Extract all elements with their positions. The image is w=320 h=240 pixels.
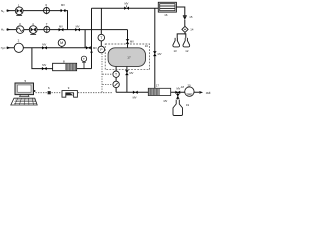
wire top line — [92, 7, 159, 9]
svg-text:20: 20 — [188, 84, 192, 88]
wire tank bottom port1 through T2 P2 to pipe — [115, 66, 117, 92]
compressor circle 1 — [15, 3, 23, 15]
svg-text:14: 14 — [190, 28, 194, 32]
signal dashed computer to interface to stage — [36, 92, 48, 94]
valve V1 row1 — [61, 3, 66, 12]
svg-text:MV: MV — [130, 40, 134, 44]
camera stage 9 — [62, 86, 77, 97]
arrow outlet — [199, 91, 203, 94]
arrow inlet row1 — [7, 9, 11, 12]
svg-text:15: 15 — [189, 15, 193, 19]
svg-text:MV: MV — [59, 25, 63, 29]
svg-text:MV: MV — [42, 43, 46, 47]
wire row1 main — [7, 10, 62, 12]
svg-text:N2: N2 — [1, 9, 5, 14]
arrow up on trunk — [90, 50, 93, 53]
wire piston outlet to trunk — [77, 68, 92, 70]
valve V2 row2 — [59, 25, 64, 32]
valve V13 junction drop — [176, 94, 180, 99]
piston cylinder 8 — [53, 59, 77, 70]
svg-text:MV: MV — [76, 25, 80, 29]
gauge T1 — [98, 34, 105, 41]
arrow inlet row3 — [7, 46, 11, 49]
wire diamond outlet branches — [184, 33, 187, 44]
wire filter to diamond — [184, 20, 186, 26]
svg-text:T: T — [83, 57, 85, 61]
vacuum pump 20 — [185, 84, 194, 97]
svg-text:10: 10 — [145, 44, 149, 48]
valve V5 trunk junction — [86, 46, 97, 50]
svg-text:13: 13 — [174, 49, 178, 53]
wire trunk x91.5 — [91, 8, 93, 68]
signal dashed stage to column — [78, 92, 112, 94]
wire right branch x154.8 top to separator — [154, 8, 156, 88]
svg-text:18: 18 — [181, 85, 184, 89]
filter 15 — [183, 15, 193, 20]
valve V4 row3 — [42, 43, 47, 50]
svg-text:out: out — [206, 91, 211, 95]
signal dashed vertical column — [101, 54, 103, 93]
wire gauge stem below row2 — [100, 30, 102, 53]
svg-text:T: T — [115, 73, 117, 77]
wire tank bottom port2 — [126, 66, 128, 92]
valve V8 tank inlet vertical — [126, 39, 134, 44]
computer 5 — [11, 79, 37, 105]
interface box 6a — [48, 86, 51, 94]
valve V12 junction horizontal — [175, 85, 184, 94]
diamond 14 — [182, 26, 194, 32]
svg-text:17: 17 — [156, 84, 160, 88]
signal dashed stub to P2 — [103, 83, 113, 85]
condenser 16 — [158, 2, 176, 17]
svg-text:5: 5 — [25, 79, 27, 83]
signal dashed stub to T2 — [103, 73, 113, 75]
flask C 19 — [173, 100, 190, 116]
wire row3 main — [7, 47, 92, 49]
svg-text:MV: MV — [130, 71, 134, 75]
svg-text:2: 2 — [18, 39, 20, 43]
svg-text:H2O: H2O — [1, 47, 6, 50]
svg-text:MV: MV — [158, 52, 162, 56]
svg-text:19: 19 — [186, 103, 190, 107]
gauge P2 — [113, 81, 119, 87]
svg-text:9: 9 — [68, 86, 70, 90]
valve V6 branch line — [42, 63, 47, 70]
wire riser x101.4 top-to-row2 — [100, 8, 102, 29]
valve V9 right branch — [153, 51, 162, 56]
svg-text:17: 17 — [127, 55, 131, 59]
sensor T circle on piston line — [81, 56, 86, 69]
pump circle 2 row3 — [14, 39, 23, 53]
mass flow controller 7 (row2) — [44, 22, 50, 33]
svg-text:12: 12 — [185, 49, 189, 53]
reactor tank 17 — [108, 48, 145, 67]
svg-text:16: 16 — [164, 13, 168, 17]
svg-text:MV: MV — [164, 100, 168, 103]
motor M on row3 — [58, 39, 65, 48]
svg-text:H2: H2 — [1, 28, 5, 33]
wire row1 corner down to row2 — [65, 11, 68, 30]
gauge T2 — [113, 71, 119, 77]
svg-text:7: 7 — [46, 22, 48, 26]
svg-text:M: M — [60, 41, 63, 45]
svg-text:8: 8 — [63, 59, 65, 63]
svg-text:MV: MV — [93, 46, 97, 50]
svg-text:MV: MV — [125, 2, 129, 6]
gauge P1 — [98, 46, 105, 53]
svg-text:MV: MV — [42, 63, 46, 67]
compressor circle 4 — [29, 22, 37, 34]
wire junction drop to flask C — [177, 92, 179, 99]
svg-text:6: 6 — [45, 3, 47, 7]
valve V7 top line — [124, 2, 129, 10]
mass flow controller 6 (row1) — [44, 3, 50, 14]
flask A 13 — [173, 38, 180, 53]
separator vessel 18 — [148, 84, 170, 96]
valve V3 row2 — [75, 25, 80, 32]
valve V10 tank bottom port2 — [125, 70, 134, 75]
flask B 12 — [183, 38, 190, 53]
valve V11 bottom pipe — [133, 91, 138, 100]
wire row2 main — [7, 29, 128, 31]
wire bottom pipe — [116, 91, 199, 93]
svg-text:6: 6 — [48, 86, 50, 90]
heat exchanger circle 3 (sine) — [16, 22, 24, 33]
enclosure dashed box 10 — [105, 44, 149, 70]
wire row2-to-row3 drop x85 — [84, 30, 86, 48]
wire row3 branch down and piston feed — [32, 48, 53, 69]
svg-text:T: T — [100, 36, 102, 40]
arrow inlet row2 — [7, 28, 11, 31]
svg-text:MV: MV — [133, 95, 137, 99]
wire condenser exit — [176, 7, 184, 15]
wire tank inlet drop x127.5 — [127, 30, 129, 49]
svg-text:MV: MV — [61, 3, 65, 7]
